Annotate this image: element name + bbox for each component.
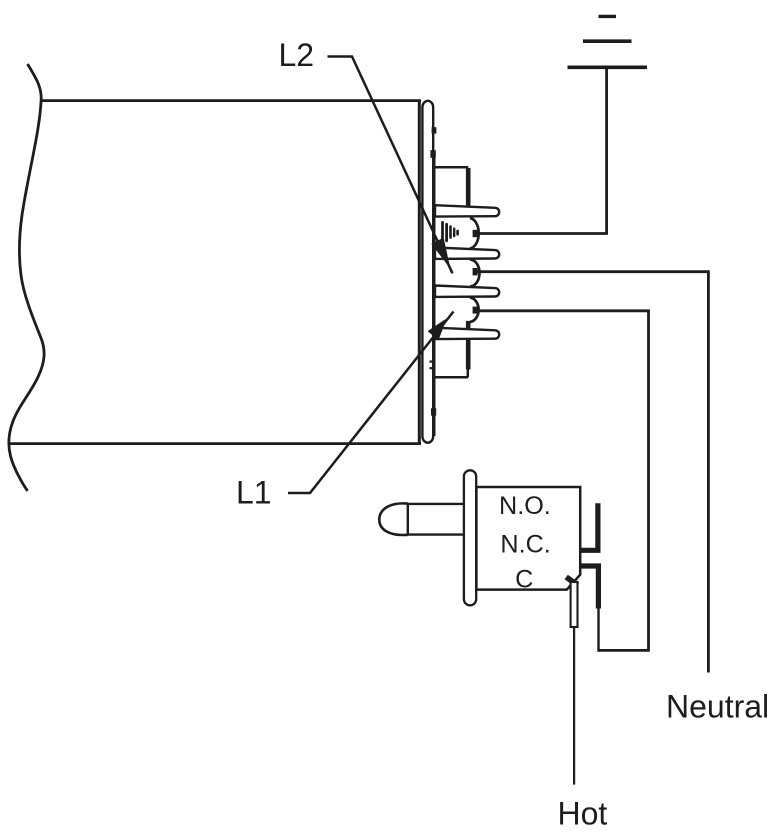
- wire neutral vertical: [707, 272, 710, 673]
- svg-text:C: C: [515, 566, 533, 594]
- terminal block right edge upper thick segment: [466, 168, 471, 206]
- switch plunger cap line: [407, 503, 409, 535]
- terminal nub 3: [473, 307, 478, 314]
- leader line L1: [288, 312, 454, 494]
- bracket tab lower: [431, 408, 436, 415]
- terminal spade pin 1: [435, 205, 499, 216]
- switch terminal N.C.: [580, 566, 598, 609]
- switch plunger dome: [379, 503, 408, 535]
- switch terminal C blade: [571, 582, 578, 627]
- terminal semicircle 1: [470, 218, 479, 249]
- svg-text:L2: L2: [279, 37, 315, 73]
- terminal block top edge: [433, 166, 468, 169]
- wire from pin1 to ground: [477, 232, 608, 235]
- terminal nub 1: [473, 230, 478, 237]
- icemaker body top edge: [41, 99, 421, 102]
- bracket tab middle: [430, 150, 435, 158]
- arrowhead L1: [429, 320, 446, 339]
- bracket jog tick lower: [430, 367, 436, 369]
- wire hot: [573, 627, 575, 785]
- crimp bars icon: [443, 222, 458, 242]
- terminal spade pin 4: [435, 328, 499, 339]
- mounting bracket strip: [422, 101, 433, 443]
- svg-text:Neutral: Neutral: [666, 689, 769, 725]
- switch terminal N.O.: [580, 503, 598, 550]
- ground symbol: [568, 16, 648, 67]
- wire from pin2 to neutral: [477, 270, 710, 273]
- terminal spade pin 3: [435, 286, 499, 297]
- icemaker body right edge: [418, 101, 421, 444]
- wire from pin3 toward switch: [477, 309, 650, 312]
- svg-text:L1: L1: [236, 475, 272, 511]
- terminal block bottom edge: [434, 376, 468, 379]
- terminal nub 2: [473, 268, 478, 275]
- svg-text:N.O.: N.O.: [499, 492, 551, 520]
- svg-text:Hot: Hot: [558, 796, 608, 832]
- arrowhead L2: [432, 239, 449, 266]
- switch terminal C tab: [566, 577, 577, 585]
- icemaker body bottom edge: [10, 442, 421, 445]
- icemaker body wavy left edge: [9, 64, 44, 491]
- bracket tab upper: [432, 127, 437, 133]
- svg-text:N.C.: N.C.: [500, 530, 550, 558]
- switch plunger stem: [408, 504, 464, 535]
- terminal block right edge lower corner: [467, 369, 469, 377]
- terminal spade pin 2: [435, 248, 499, 259]
- wire switch feed vertical: [647, 311, 650, 651]
- leader line L2: [328, 57, 453, 274]
- switch body: [476, 487, 580, 590]
- wire up to N.C. terminal: [597, 609, 599, 652]
- wire switch feed bottom horizontal: [598, 649, 650, 652]
- terminal block left edge: [433, 157, 435, 436]
- bracket jog tick upper: [430, 361, 436, 363]
- terminal semicircle 2: [470, 260, 480, 287]
- terminal block right edge lower thick segment: [466, 321, 471, 370]
- wire ground vertical: [605, 67, 608, 233]
- terminal semicircle 3: [470, 298, 479, 323]
- switch mounting flange: [464, 470, 476, 605]
